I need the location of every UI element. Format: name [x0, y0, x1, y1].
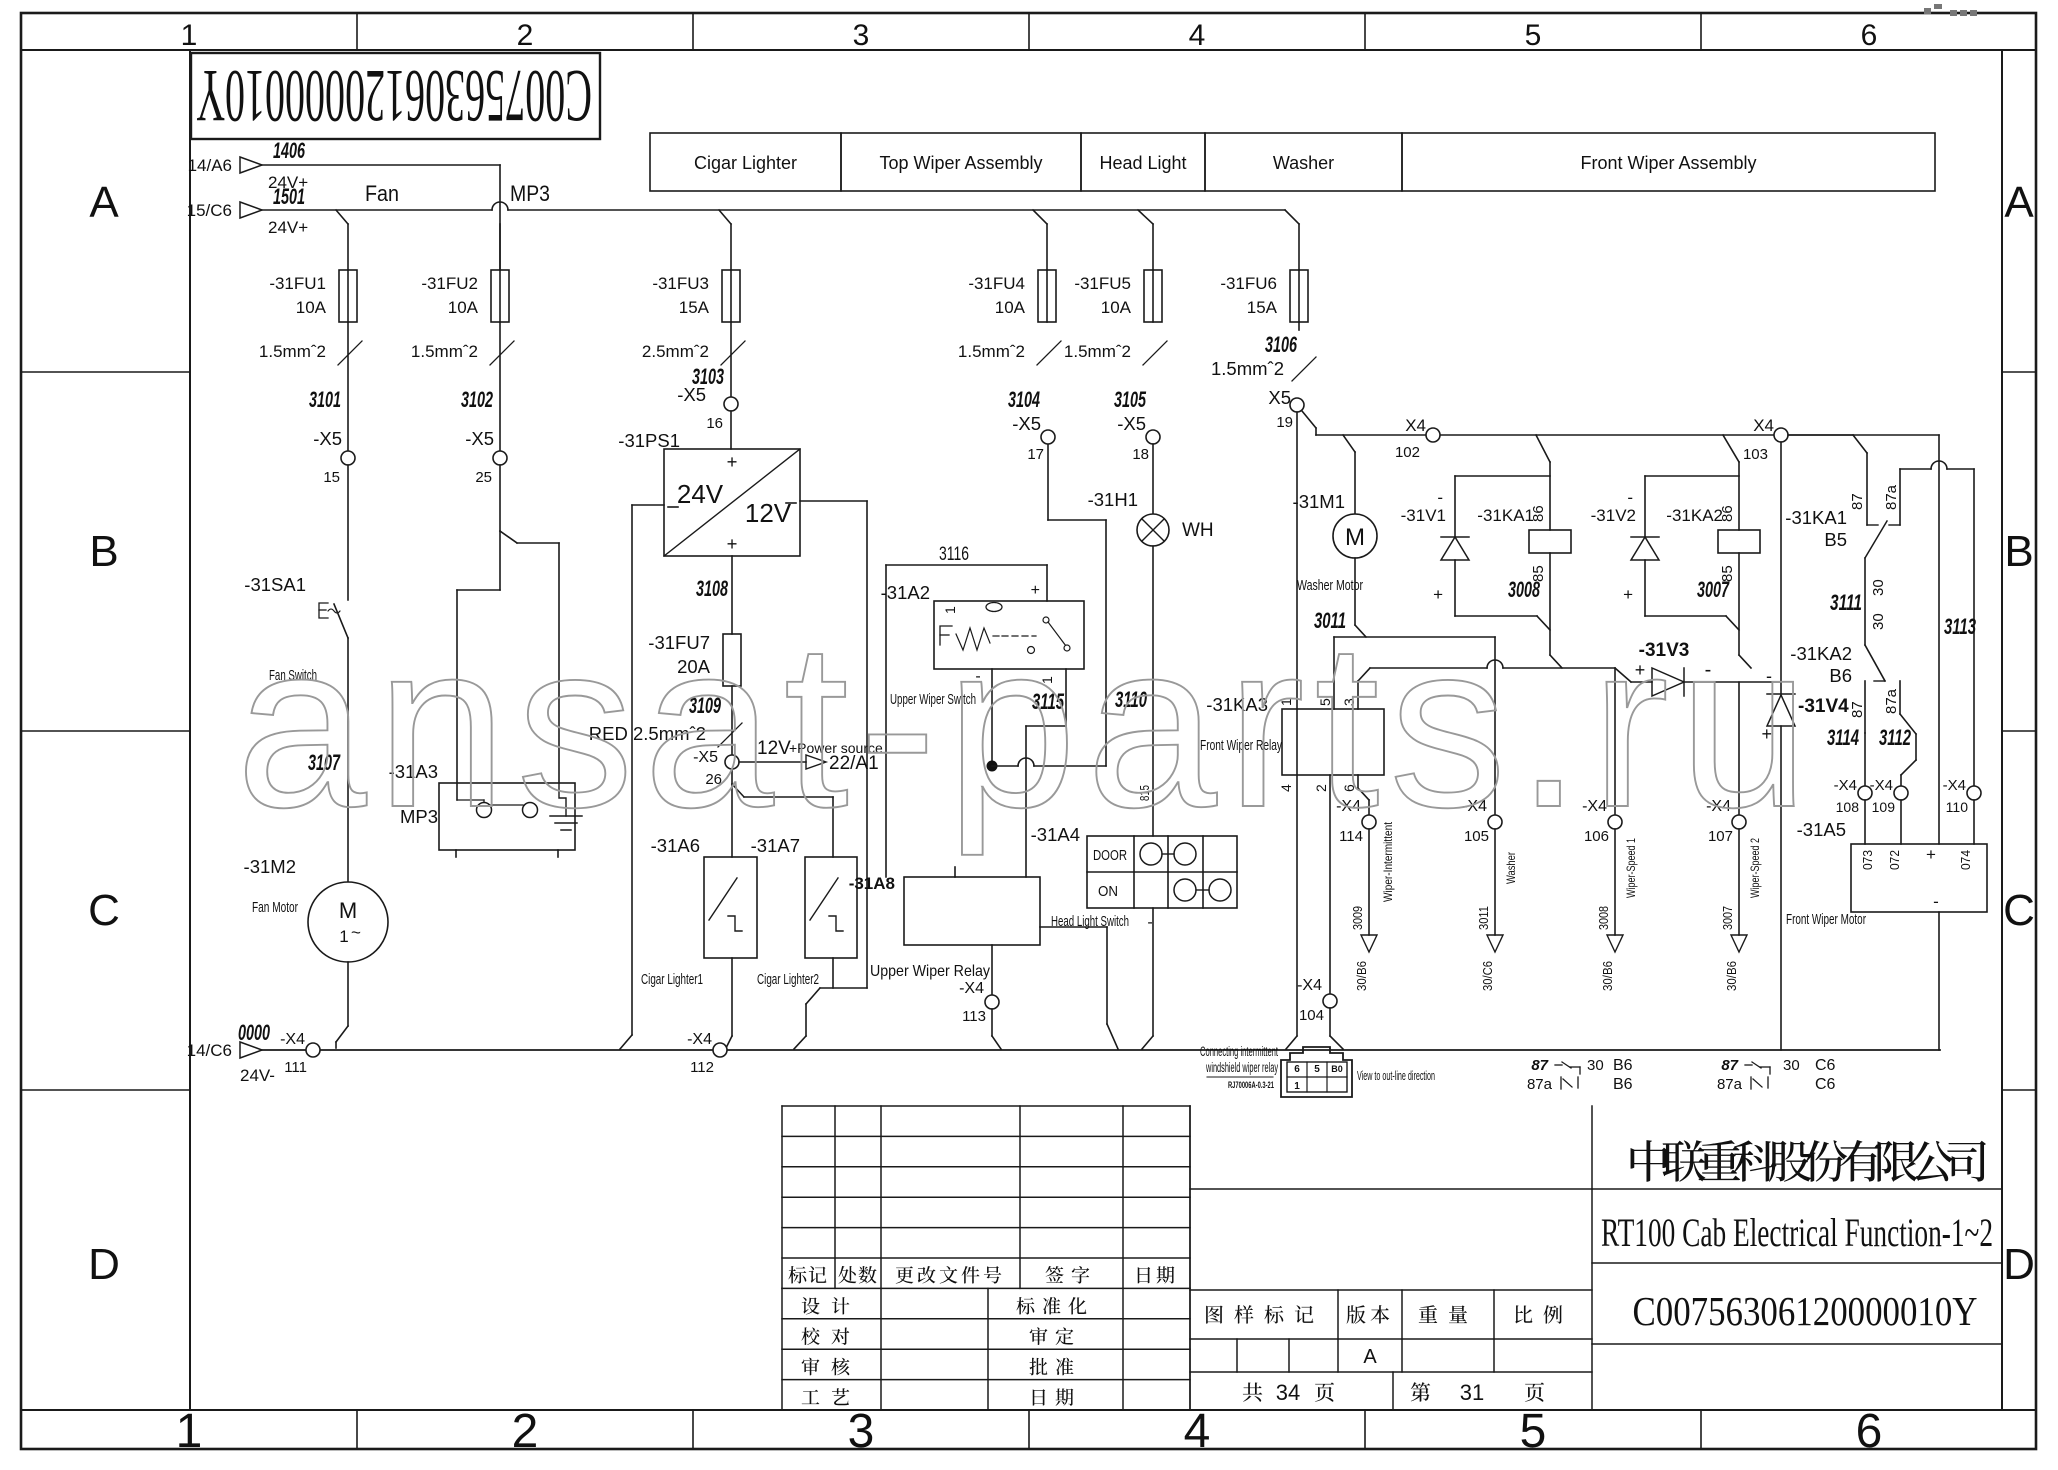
wire drop diagonal — [1285, 210, 1299, 224]
svg-text:-31FU6: -31FU6 — [1220, 274, 1277, 293]
svg-text:1501: 1501 — [273, 184, 305, 209]
svg-text:-X4: -X4 — [1834, 777, 1857, 794]
KA3 pin3 wire to V3 — [1357, 681, 1359, 709]
title band bottom inner line — [21, 1409, 2036, 1411]
svg-text:3105: 3105 — [1114, 387, 1146, 412]
ground inside MP3 — [559, 783, 566, 816]
PS1 12V- wire — [800, 500, 867, 502]
svg-text:10A: 10A — [1101, 298, 1132, 317]
svg-text:B0: B0 — [1331, 1064, 1343, 1074]
svg-text:-X5: -X5 — [1012, 413, 1041, 434]
wire branch1 to bus — [347, 962, 349, 1026]
svg-text:-31A8: -31A8 — [849, 874, 895, 893]
svg-text:-31FU2: -31FU2 — [421, 274, 478, 293]
svg-text:WH: WH — [1182, 520, 1214, 541]
terminal X5 19 — [1298, 322, 1300, 330]
row divider BC left — [21, 730, 190, 732]
svg-text:30: 30 — [1587, 1057, 1604, 1074]
wire to washer motor M1 — [1343, 435, 1355, 452]
svg-text:0000: 0000 — [238, 1020, 270, 1045]
svg-text:1: 1 — [181, 19, 198, 52]
svg-text:14/A6: 14/A6 — [188, 156, 232, 175]
svg-text:-X4: -X4 — [959, 980, 984, 997]
revision table — [782, 1105, 1190, 1107]
wire branch2 — [499, 322, 501, 451]
svg-text:87: 87 — [1849, 701, 1866, 718]
svg-text:Fan: Fan — [365, 181, 399, 206]
svg-text:X4: X4 — [1405, 416, 1426, 435]
svg-text:Fan Motor: Fan Motor — [252, 899, 298, 916]
column tick 5/6 bottom — [1700, 1410, 1702, 1449]
column tick 5/6 top — [1700, 13, 1702, 50]
svg-text:-31FU1: -31FU1 — [269, 274, 326, 293]
svg-text:-X4: -X4 — [1297, 977, 1322, 994]
title block middle section — [1189, 1106, 1191, 1410]
bus wire 0000 24V- — [262, 1049, 1940, 1051]
title band top inner line — [21, 49, 2036, 51]
svg-text:12V: 12V — [745, 498, 792, 528]
svg-text:103: 103 — [1743, 446, 1768, 463]
svg-text:3101: 3101 — [309, 387, 341, 412]
svg-text:112: 112 — [690, 1059, 714, 1076]
svg-text:16: 16 — [706, 415, 723, 432]
svg-text:4: 4 — [1184, 1405, 1211, 1458]
svg-text:5: 5 — [1525, 19, 1542, 52]
column tick 3/4 top — [1028, 13, 1030, 50]
fuse -31FU2 10A — [499, 224, 501, 270]
function box Head Light — [1081, 133, 1205, 191]
svg-text:-31FU3: -31FU3 — [652, 274, 709, 293]
svg-text:6: 6 — [1861, 19, 1878, 52]
svg-text:B: B — [2004, 527, 2033, 576]
wire branch3 — [730, 322, 732, 397]
svg-text:-31KA2: -31KA2 — [1666, 506, 1723, 525]
svg-text:M: M — [1345, 524, 1365, 551]
fuse -31FU7 20A — [723, 634, 741, 686]
labels 图样标记 版本 重量 比例 — [1206, 1305, 1223, 1323]
svg-text:-31M2: -31M2 — [244, 856, 296, 877]
diode -31V1 — [1454, 476, 1456, 537]
svg-text:87a: 87a — [1883, 688, 1900, 714]
wire to cigar lighters — [731, 769, 733, 784]
svg-text:10A: 10A — [448, 298, 479, 317]
svg-text:3114: 3114 — [1827, 725, 1859, 750]
svg-text:+: + — [727, 533, 738, 554]
svg-text:104: 104 — [1299, 1007, 1324, 1024]
svg-text:M: M — [339, 898, 357, 923]
svg-text:30/C6: 30/C6 — [1480, 961, 1495, 991]
V1 parallel wires — [1455, 475, 1550, 477]
svg-text:-X4: -X4 — [1943, 777, 1966, 794]
svg-text:6: 6 — [1294, 1064, 1300, 1075]
svg-text:View to out-line direction: View to out-line direction — [1357, 1068, 1435, 1083]
column tick 1/2 top — [356, 13, 358, 50]
B5 87a wire to X4 110 (hop over 3113) — [1900, 468, 1931, 470]
wire 1501 horizontal with hop at MP3 branch — [262, 209, 492, 211]
svg-text:-31KA1: -31KA1 — [1785, 507, 1847, 528]
svg-text:17: 17 — [1027, 446, 1044, 463]
svg-text:19: 19 — [1276, 414, 1293, 431]
wire branch1 — [347, 322, 349, 451]
svg-text:30/B6: 30/B6 — [1724, 961, 1739, 991]
svg-text:3106: 3106 — [1265, 332, 1297, 357]
svg-text:-: - — [1933, 892, 1939, 911]
company name cell — [1592, 1188, 2002, 1190]
column tick 3/4 bottom — [1028, 1410, 1030, 1449]
svg-text:Connecting intermittent: Connecting intermittent — [1200, 1044, 1278, 1059]
svg-text:113: 113 — [962, 1008, 986, 1025]
svg-text:-31KA1: -31KA1 — [1477, 506, 1534, 525]
svg-text:Front Wiper Assembly: Front Wiper Assembly — [1580, 153, 1756, 173]
svg-text:3116: 3116 — [939, 544, 969, 565]
svg-text:3009: 3009 — [1350, 906, 1365, 930]
svg-text:25: 25 — [475, 469, 492, 486]
svg-text:-X5: -X5 — [465, 428, 494, 449]
svg-text:30: 30 — [1783, 1057, 1800, 1074]
wire split to MP3 right pin — [500, 531, 517, 543]
svg-text:-: - — [1147, 914, 1152, 931]
svg-text:RT100 Cab Electrical Function-: RT100 Cab Electrical Function-1~2 — [1601, 1210, 1993, 1255]
wire branch1 lower — [347, 465, 349, 600]
svg-text:87: 87 — [1721, 1057, 1738, 1074]
A2 pin wires down — [991, 669, 993, 761]
svg-text:109: 109 — [1872, 799, 1896, 815]
column tick 2/3 top — [692, 13, 694, 50]
svg-text:5: 5 — [1314, 1064, 1320, 1075]
svg-text:Washer: Washer — [1273, 153, 1334, 173]
svg-text:5: 5 — [1520, 1405, 1547, 1458]
junction horizontal wire with hop — [992, 765, 1018, 767]
row divider BC right — [2002, 730, 2036, 732]
svg-text:-X5: -X5 — [677, 384, 706, 405]
svg-text:Upper Wiper Relay: Upper Wiper Relay — [870, 963, 990, 980]
svg-text:ansat-parts.ru: ansat-parts.ru — [236, 593, 1819, 856]
fuse -31FU3 15A — [730, 224, 732, 270]
svg-text:-31FU4: -31FU4 — [968, 274, 1025, 293]
svg-text:B6: B6 — [1613, 1076, 1633, 1093]
svg-text:30/B6: 30/B6 — [1600, 961, 1615, 991]
wire 30 / 3111 — [1864, 558, 1866, 645]
svg-text:87: 87 — [1849, 493, 1866, 510]
svg-text:-X5: -X5 — [1117, 413, 1146, 434]
svg-text:110: 110 — [1946, 799, 1969, 815]
svg-text:1406: 1406 — [273, 138, 305, 163]
svg-text:4: 4 — [1189, 19, 1206, 52]
svg-text:102: 102 — [1395, 444, 1420, 461]
svg-text:18: 18 — [1132, 446, 1149, 463]
svg-text:Cigar Lighter2: Cigar Lighter2 — [757, 971, 819, 988]
diode -31V4 on X4 103 vertical — [1780, 442, 1782, 694]
label 第 31 页 — [1411, 1382, 1430, 1401]
revision table headers — [788, 1266, 806, 1283]
wire X5 19 to X4 102 distribution — [1302, 411, 1316, 428]
svg-text:Washer Motor: Washer Motor — [1297, 577, 1363, 594]
svg-text:Front Wiper Motor: Front Wiper Motor — [1786, 911, 1866, 928]
svg-text:1.5mmˆ2: 1.5mmˆ2 — [1211, 358, 1284, 379]
wire 3008 drop to X4 106 — [1615, 668, 1631, 682]
svg-text:34: 34 — [1276, 1380, 1300, 1405]
washer output wire 3011 to X4 105 — [1494, 637, 1496, 815]
svg-text:-: - — [1437, 488, 1443, 507]
svg-text:~: ~ — [351, 923, 361, 942]
svg-text:B6: B6 — [1613, 1057, 1633, 1074]
svg-text:073: 073 — [1860, 850, 1875, 870]
fuse -31FU6 15A — [1298, 224, 1300, 270]
junction node — [987, 761, 998, 772]
drawing title RT100 — [1592, 1262, 2002, 1264]
column tick 2/3 bottom — [692, 1410, 694, 1449]
function box Washer — [1205, 133, 1402, 191]
wire 1406 corner down to FU2 — [499, 165, 501, 270]
svg-text:-: - — [1627, 488, 1633, 507]
wire drop diagonal — [1033, 210, 1047, 224]
wire 815 to bus — [1152, 908, 1154, 1036]
svg-text:87: 87 — [1531, 1057, 1548, 1074]
svg-text:1: 1 — [176, 1405, 203, 1458]
svg-text:30/B6: 30/B6 — [1354, 961, 1369, 991]
KA3 pin5 wire — [1333, 637, 1335, 709]
row divider AB right — [2002, 371, 2036, 373]
svg-text:ON: ON — [1098, 883, 1118, 900]
svg-text:X5: X5 — [1268, 387, 1291, 408]
svg-text:3008: 3008 — [1596, 906, 1611, 930]
svg-text:24V: 24V — [677, 479, 724, 509]
svg-text:14/C6: 14/C6 — [187, 1041, 232, 1060]
svg-text:1.5mmˆ2: 1.5mmˆ2 — [1064, 342, 1131, 361]
svg-text:C00756306120000010Y: C00756306120000010Y — [1633, 1288, 1978, 1334]
A5 minus wire to bus — [1938, 912, 1940, 1050]
drawing area right border — [2001, 50, 2003, 1410]
row divider CD right — [2002, 1089, 2036, 1091]
wire 3007 drop to X4 107 — [1738, 682, 1740, 815]
svg-text:3: 3 — [848, 1405, 875, 1458]
svg-text:15A: 15A — [1247, 298, 1278, 317]
svg-text:-X4: -X4 — [1870, 777, 1893, 794]
svg-text:1.5mmˆ2: 1.5mmˆ2 — [411, 342, 478, 361]
svg-text:RJ70006A-0.3-21: RJ70006A-0.3-21 — [1228, 1080, 1274, 1091]
svg-text:072: 072 — [1887, 850, 1902, 870]
svg-text:3007: 3007 — [1720, 906, 1735, 930]
svg-text:+: + — [727, 451, 738, 472]
wire drop diagonal — [719, 210, 731, 224]
diode -31V2 — [1644, 476, 1646, 537]
svg-text:C: C — [2003, 886, 2035, 935]
svg-text:3011: 3011 — [1476, 906, 1491, 930]
function box Top Wiper Assembly — [841, 133, 1081, 191]
svg-text:A: A — [2004, 178, 2034, 227]
scanner artifacts top right — [1924, 4, 1977, 16]
svg-text:+: + — [1926, 845, 1936, 864]
svg-text:-31PS1: -31PS1 — [618, 430, 680, 451]
svg-text:B5: B5 — [1824, 529, 1847, 550]
svg-text:-X4: -X4 — [687, 1031, 712, 1048]
wire A6 to bus — [731, 958, 733, 1036]
svg-text:Cigar Lighter: Cigar Lighter — [694, 153, 797, 173]
X4 103 wire to KA1 B5 contact — [1788, 434, 1853, 436]
svg-text:3111: 3111 — [1830, 590, 1862, 615]
svg-text:15/C6: 15/C6 — [187, 201, 232, 220]
svg-text:1.5mmˆ2: 1.5mmˆ2 — [259, 342, 326, 361]
svg-text:A: A — [1363, 1346, 1377, 1368]
wire to MP3 left pin — [499, 531, 501, 590]
wire from FU4 branch — [1047, 444, 1049, 520]
KA3 pin2 wire to X4 104 — [1329, 775, 1331, 995]
fuse -31FU4 10A — [1046, 224, 1048, 270]
svg-text:3112: 3112 — [1879, 725, 1912, 750]
svg-text:B6: B6 — [1829, 665, 1852, 686]
wire 3009 Wiper-Intermittent — [1368, 829, 1370, 935]
label 共 34 页 — [1243, 1383, 1262, 1402]
svg-text:31: 31 — [1460, 1380, 1484, 1405]
wire drop diagonal — [1138, 210, 1153, 224]
svg-text:87a: 87a — [1717, 1076, 1743, 1093]
lamp -31H1 WH — [1152, 444, 1154, 514]
revision table row labels — [802, 1297, 820, 1314]
svg-text:C: C — [88, 886, 120, 935]
svg-text:D: D — [2003, 1240, 2035, 1289]
svg-text:Washer: Washer — [1504, 852, 1518, 884]
connector view (castellated plug) — [1281, 1047, 1352, 1097]
svg-text:C00756306120000010Y: C00756306120000010Y — [196, 54, 592, 137]
svg-text:111: 111 — [284, 1059, 307, 1076]
washer feed vertical to KA3 pin 1 — [1296, 412, 1298, 1036]
svg-text:30: 30 — [1870, 579, 1887, 596]
svg-text:6: 6 — [1856, 1405, 1883, 1458]
wire A7 + 12V- to bus — [832, 958, 834, 988]
svg-text:87a: 87a — [1883, 484, 1900, 510]
drawing number C00756306120000010Y — [1592, 1343, 2002, 1345]
fuse -31FU5 10A — [1152, 224, 1154, 270]
relay output to -X4 113 — [991, 945, 993, 995]
svg-text:2.5mmˆ2: 2.5mmˆ2 — [642, 342, 709, 361]
svg-text:-31V2: -31V2 — [1591, 506, 1636, 525]
svg-text:2: 2 — [517, 19, 534, 52]
document number box (rotated) — [191, 53, 600, 139]
V2 parallel wires — [1645, 475, 1739, 477]
svg-text:2: 2 — [512, 1405, 539, 1458]
svg-text:C6: C6 — [1815, 1057, 1836, 1074]
svg-text:15: 15 — [323, 469, 340, 486]
svg-text:Top Wiper Assembly: Top Wiper Assembly — [879, 153, 1042, 173]
svg-text:C6: C6 — [1815, 1076, 1836, 1093]
svg-text:108: 108 — [1836, 799, 1860, 815]
contact -31KA2 B6 — [1865, 645, 1885, 681]
function box Cigar Lighter — [650, 133, 841, 191]
row divider CD left — [21, 1089, 190, 1091]
12V power source arrow 22/A1 — [739, 761, 806, 763]
svg-text:MP3: MP3 — [510, 181, 550, 206]
svg-text:3: 3 — [853, 19, 870, 52]
svg-text:windshield wiper relay: windshield wiper relay — [1205, 1060, 1278, 1075]
svg-text:-31V1: -31V1 — [1401, 506, 1446, 525]
column tick 4/5 bottom — [1364, 1410, 1366, 1449]
column tick 4/5 top — [1364, 13, 1366, 50]
relay right wire to bus — [1040, 926, 1107, 928]
row divider AB left — [21, 371, 190, 373]
wire 1406 horizontal — [262, 164, 500, 166]
wire drop diagonal — [336, 210, 348, 224]
svg-text:-31SA1: -31SA1 — [244, 574, 306, 595]
svg-text:1: 1 — [1294, 1081, 1300, 1092]
svg-text:X4: X4 — [1753, 416, 1774, 435]
svg-text:Head Light: Head Light — [1099, 153, 1186, 173]
svg-text:-31H1: -31H1 — [1088, 489, 1138, 510]
column tick 1/2 bottom — [356, 1410, 358, 1449]
svg-text:30: 30 — [1870, 613, 1887, 630]
wire 3011 from M1 — [1354, 558, 1356, 625]
wire 3107 — [347, 638, 349, 882]
A2 internals — [940, 626, 952, 645]
relay coil -31KA2 — [1723, 435, 1739, 462]
svg-text:D: D — [88, 1240, 120, 1289]
svg-text:24V+: 24V+ — [268, 218, 308, 237]
svg-text:074: 074 — [1958, 850, 1973, 870]
svg-text:-31FU5: -31FU5 — [1074, 274, 1131, 293]
wire to PS1 — [730, 411, 732, 449]
wire 3108 / FU7 — [731, 556, 733, 634]
svg-text:15A: 15A — [679, 298, 710, 317]
svg-text:3104: 3104 — [1008, 387, 1040, 412]
svg-text:-X4: -X4 — [280, 1031, 305, 1048]
svg-text:10A: 10A — [995, 298, 1026, 317]
KA3 pin6 wire to X4 114 — [1357, 775, 1359, 788]
svg-text:10A: 10A — [296, 298, 327, 317]
PS1 24V- wire to bus — [632, 504, 664, 506]
relay coil -31KA1 — [1536, 435, 1550, 462]
fuse -31FU1 10A — [347, 224, 349, 270]
function box Front Wiper Assembly — [1402, 133, 1935, 191]
svg-text:B: B — [89, 527, 118, 576]
svg-text:3102: 3102 — [461, 387, 493, 412]
diode -31V3 — [1631, 681, 1652, 683]
svg-text:-X5: -X5 — [313, 428, 342, 449]
svg-text:-31M1: -31M1 — [1293, 491, 1345, 512]
drawing area left border — [189, 50, 191, 1410]
wire 3110 / 815 — [1152, 546, 1154, 836]
svg-text:1.5mmˆ2: 1.5mmˆ2 — [958, 342, 1025, 361]
wire branch2 to MP3 — [499, 465, 501, 531]
svg-text:3113: 3113 — [1944, 614, 1976, 639]
svg-text:A: A — [89, 178, 119, 227]
svg-text:24V-: 24V- — [240, 1066, 275, 1085]
svg-text:Cigar Lighter1: Cigar Lighter1 — [641, 971, 703, 988]
svg-text:1: 1 — [339, 927, 348, 946]
svg-text:87a: 87a — [1527, 1076, 1553, 1093]
